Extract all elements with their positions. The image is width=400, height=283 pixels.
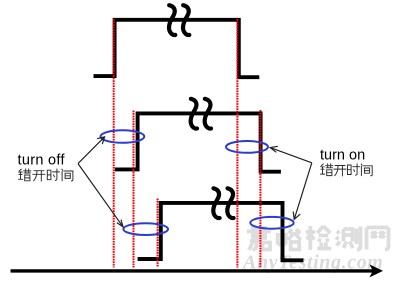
blue ellipse E1 (turn-off stagger 1-2) — [101, 130, 145, 143]
waveform phase 2 pulse — [115, 113, 281, 171]
watermark chinese 嘉峪检测网 — [247, 226, 389, 251]
break symbol phase 2 — [191, 99, 211, 129]
blue ellipse E2 (turn-off stagger 2-3) — [123, 223, 168, 235]
blue ellipse E4 (turn-on stagger 2-3) — [250, 217, 293, 229]
red dashed line L1 (phase1 turn-on edge) — [113, 19, 115, 268]
waveform phase 1 pulse — [94, 20, 260, 77]
red dashed line L2 (phase2 turn-on edge) — [133, 111, 135, 268]
break symbol phase 3 — [213, 188, 233, 218]
arrow A2 from turn-off label to ellipse E2 — [78, 164, 123, 227]
svg-text:turn on: turn on — [320, 148, 365, 164]
red dashed line L3 (phase3 turn-on edge) — [157, 199, 159, 267]
svg-text:turn off: turn off — [18, 153, 66, 169]
break symbol phase 1 — [169, 5, 189, 35]
arrow A1 from turn-off label to ellipse E1 — [78, 137, 105, 164]
waveform phase 3 pulse — [138, 203, 304, 260]
arrow A3 from turn-on label to ellipse E3 — [270, 146, 312, 163]
red dashed line L4 (phase1 turn-off edge) — [236, 19, 238, 268]
arrow A4 from turn-on label to ellipse E4 — [293, 163, 312, 220]
blue ellipse E3 (turn-on stagger 1-2) — [226, 141, 268, 153]
label 错开时间 (left) — [19, 169, 73, 181]
time axis — [11, 264, 384, 277]
label 错开时间 (right) — [321, 164, 373, 176]
red dashed line L5 (phase2 turn-off edge) — [259, 110, 261, 268]
